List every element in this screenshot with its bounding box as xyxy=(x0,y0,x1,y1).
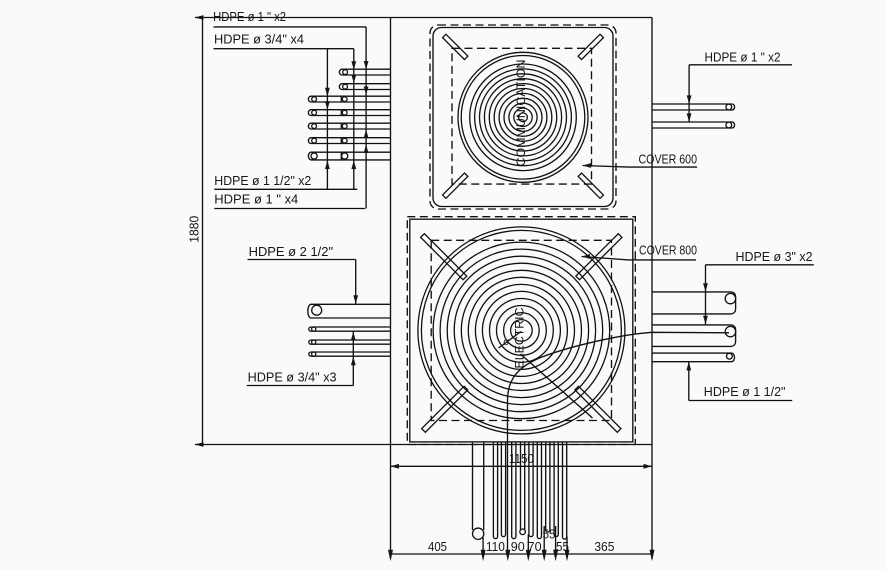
svg-text:HDPE ø 2 1/2": HDPE ø 2 1/2" xyxy=(249,245,334,259)
svg-text:HDPE ø 1 " x2: HDPE ø 1 " x2 xyxy=(213,10,286,24)
svg-text:HDPE ø 3/4" x4: HDPE ø 3/4" x4 xyxy=(214,33,304,47)
svg-text:1150: 1150 xyxy=(509,452,534,466)
svg-text:55: 55 xyxy=(556,540,569,554)
svg-text:HDPE ø 3/4" x3: HDPE ø 3/4" x3 xyxy=(248,370,337,384)
svg-text:COMMUNICATION: COMMUNICATION xyxy=(514,60,528,167)
svg-text:110: 110 xyxy=(486,540,505,554)
svg-text:HDPE ø 1 1/2": HDPE ø 1 1/2" xyxy=(704,385,786,399)
svg-text:365: 365 xyxy=(594,540,614,554)
svg-text:70: 70 xyxy=(528,540,542,554)
svg-text:ELECTRIC: ELECTRIC xyxy=(513,307,527,368)
svg-text:HDPE ø 1 1/2" x2: HDPE ø 1 1/2" x2 xyxy=(214,174,311,188)
svg-text:90: 90 xyxy=(511,540,525,554)
svg-text:COVER 800: COVER 800 xyxy=(639,244,697,258)
svg-text:HDPE ø 1 " x4: HDPE ø 1 " x4 xyxy=(214,193,298,207)
svg-text:COVER 600: COVER 600 xyxy=(639,152,698,166)
svg-text:405: 405 xyxy=(428,540,447,554)
svg-text:HDPE ø 1 " x2: HDPE ø 1 " x2 xyxy=(705,51,781,65)
svg-text:HDPE ø 3" x2: HDPE ø 3" x2 xyxy=(736,250,813,264)
svg-text:1880: 1880 xyxy=(187,216,201,243)
